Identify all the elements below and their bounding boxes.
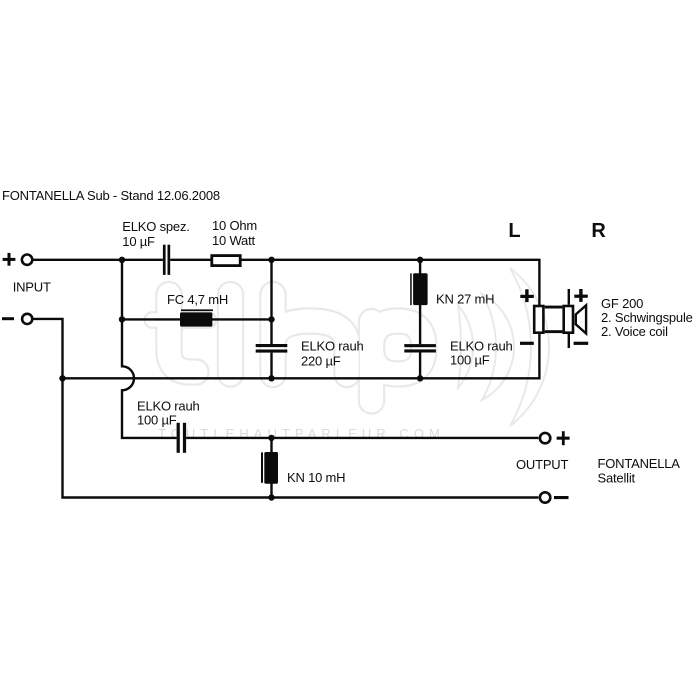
svg-text:FC 4,7 mH: FC 4,7 mH <box>167 292 228 307</box>
svg-text:KN 10 mH: KN 10 mH <box>287 470 345 485</box>
svg-text:Satellit: Satellit <box>598 470 636 485</box>
svg-text:100 µF: 100 µF <box>137 413 177 428</box>
svg-text:FONTANELLA Sub - Stand 12.06.2: FONTANELLA Sub - Stand 12.06.2008 <box>2 188 220 203</box>
svg-text:INPUT: INPUT <box>13 280 51 295</box>
svg-text:ELKO rauh: ELKO rauh <box>450 338 513 353</box>
svg-text:100 µF: 100 µF <box>450 352 490 367</box>
svg-text:10 Ohm: 10 Ohm <box>212 218 257 233</box>
svg-text:10 µF: 10 µF <box>122 234 155 249</box>
svg-text:KN 27 mH: KN 27 mH <box>436 291 494 306</box>
svg-text:R: R <box>591 220 606 242</box>
svg-text:ELKO rauh: ELKO rauh <box>301 338 364 353</box>
svg-text:ELKO spez.: ELKO spez. <box>122 219 189 234</box>
svg-text:FONTANELLA: FONTANELLA <box>598 456 681 471</box>
svg-text:220 µF: 220 µF <box>301 353 341 368</box>
svg-text:OUTPUT: OUTPUT <box>516 457 569 472</box>
svg-text:ELKO rauh: ELKO rauh <box>137 398 200 413</box>
svg-text:2. Schwingspule: 2. Schwingspule <box>601 310 693 325</box>
svg-text:GF 200: GF 200 <box>601 296 643 311</box>
svg-text:2. Voice coil: 2. Voice coil <box>601 324 668 339</box>
svg-text:10 Watt: 10 Watt <box>212 233 256 248</box>
svg-text:L: L <box>508 220 520 242</box>
